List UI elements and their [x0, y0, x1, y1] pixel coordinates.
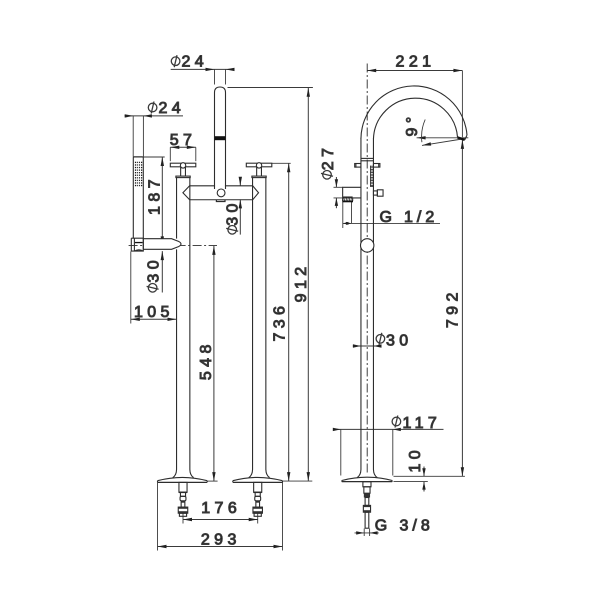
- left inlet fitting: [178, 482, 188, 516]
- svg-text:3/8: 3/8: [400, 518, 434, 535]
- svg-text:30: 30: [225, 199, 242, 226]
- svg-text:G: G: [380, 209, 396, 226]
- right base plate: [233, 477, 283, 482]
- right inlet fitting: [253, 482, 263, 516]
- left base plate: [158, 477, 208, 482]
- svg-text:57: 57: [170, 132, 197, 149]
- shower outlet port: [342, 187, 361, 201]
- dim 57 (handle width): [170, 146, 196, 162]
- svg-text:24: 24: [159, 100, 186, 117]
- spray face hatch: [135, 162, 142, 185]
- svg-text:187: 187: [146, 175, 163, 215]
- spout bend outer arc: [361, 86, 467, 139]
- svg-text:792: 792: [445, 288, 462, 328]
- dim 912 (wand top to floor): [228, 88, 313, 482]
- dim 176 (inlet spacing): [183, 514, 258, 524]
- spray wand (vertical pipe): [215, 86, 226, 189]
- body center cap: [217, 189, 225, 197]
- knurled strip: [370, 166, 373, 187]
- label G 3/8 (supply connection): [355, 529, 379, 537]
- svg-text:117: 117: [403, 415, 442, 432]
- dim Phi30 (holder arm): [147, 251, 164, 292]
- centerline holder arm axis: [129, 244, 217, 246]
- diverter knob: [373, 191, 377, 195]
- base flare (side): [357, 470, 377, 478]
- svg-text:27: 27: [320, 144, 337, 171]
- holder arm end-on circle: [361, 239, 374, 252]
- left column base flare: [173, 470, 194, 478]
- dim 187 (hand shower top to holder axis): [133, 157, 165, 245]
- dim 548 (holder axis to floor): [207, 246, 217, 481]
- dim 736 (handle top to floor): [272, 163, 291, 481]
- svg-text:176: 176: [201, 500, 241, 517]
- dim 105 (holder reach): [131, 252, 177, 324]
- dim 10 (plate thickness): [394, 467, 465, 492]
- left handle (cross bar): [170, 163, 196, 178]
- svg-text:1/2: 1/2: [404, 209, 438, 226]
- svg-text:105: 105: [134, 304, 174, 321]
- dim 792 (spout outlet to floor): [461, 140, 464, 476]
- riser column (side): [360, 138, 362, 470]
- hand shower holder and arm: [131, 238, 181, 251]
- dim Phi117 (base plate diameter): [333, 416, 444, 476]
- column centerline: [366, 64, 368, 475]
- handle tabs (side): [355, 164, 361, 168]
- hand shower handle: [133, 157, 143, 238]
- svg-text:G: G: [375, 517, 391, 534]
- svg-text:293: 293: [201, 532, 241, 549]
- side inlet fitting: [363, 482, 371, 529]
- svg-text:912: 912: [293, 262, 310, 302]
- dim 9 deg (outlet angle): [417, 120, 469, 146]
- svg-text:30: 30: [146, 256, 163, 283]
- svg-text:10: 10: [407, 446, 424, 473]
- dim Phi27 (shower outlet port): [321, 171, 353, 209]
- dim Phi30 (riser column, side view): [353, 333, 385, 348]
- svg-text:548: 548: [198, 340, 215, 380]
- dim 221 (spout reach): [367, 69, 462, 137]
- label G 1/2 (hand shower connection): [343, 202, 440, 228]
- side base plate: [342, 477, 392, 481]
- dim Phi24 (top spray wand): [171, 55, 235, 84]
- aerator tab under body: [216, 200, 225, 202]
- svg-text:24: 24: [182, 54, 209, 71]
- spout outlet face: [457, 137, 464, 140]
- dim Phi24 (hand shower): [125, 102, 184, 157]
- dim Phi30 (body tube, front view): [226, 177, 242, 235]
- svg-text:736: 736: [272, 302, 289, 342]
- mixer body (horizontal tube, hexagon outline): [183, 186, 259, 200]
- right column base flare: [249, 470, 270, 478]
- right handle (cross bar): [246, 163, 271, 178]
- svg-text:30: 30: [386, 332, 413, 349]
- joint lines: [361, 157, 374, 159]
- svg-text:9°: 9°: [404, 112, 421, 136]
- spout bend inner arc: [373, 98, 457, 139]
- right riser column: [252, 178, 254, 470]
- left riser column: [176, 178, 178, 239]
- dim 293 (base plate span): [158, 481, 283, 550]
- svg-text:221: 221: [396, 53, 436, 70]
